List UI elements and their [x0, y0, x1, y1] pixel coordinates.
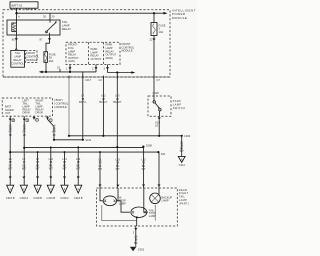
label wire L62 [99, 94, 107, 105]
label wire L7 left [79, 94, 87, 105]
svg-text:S1: S1 [57, 66, 61, 70]
wire lamp entry 4 [158, 152, 160, 188]
node park bus center tap [102, 135, 104, 137]
bulb B3 park [150, 188, 161, 204]
node v3 tap [116, 71, 118, 73]
svg-text:MODULE: MODULE [122, 49, 133, 53]
rear lamp assembly label [179, 188, 189, 206]
bulb B2 tail stop turn [117, 188, 148, 217]
wire fused output bus [39, 71, 96, 74]
wire T4 drop [50, 148, 52, 186]
wire lamp entry 1 [99, 152, 101, 188]
wire descender park feed [68, 77, 70, 136]
intelligent power module label [172, 9, 196, 20]
svg-text:WT: WT [98, 167, 102, 171]
node battery feed junction [15, 12, 17, 14]
fuse F1 [44, 52, 48, 63]
splice S1 tick [57, 66, 61, 72]
svg-text:C117: C117 [85, 78, 92, 82]
pin 85 relay coil lower [12, 35, 18, 42]
wire descender center [102, 77, 104, 136]
svg-text:C318 B: C318 B [74, 196, 83, 200]
node left tail bus start [9, 151, 11, 153]
svg-text:C7: C7 [157, 78, 161, 82]
svg-text:BK/GY: BK/GY [99, 100, 107, 104]
wire lamp ground bus [102, 205, 155, 226]
fuse F2 label [159, 24, 166, 34]
wire T3 drop [37, 152, 39, 185]
wire ground lead [133, 226, 138, 247]
wire BCM3 drop [53, 127, 55, 140]
svg-text:REAR: REAR [179, 188, 187, 192]
pin BCM 3 [46, 116, 54, 126]
label wire T1 [8, 157, 12, 171]
svg-text:BK/YL: BK/YL [79, 100, 87, 104]
svg-text:SWITCH: SWITCH [173, 106, 186, 110]
wire fuse F1 output [45, 62, 47, 72]
svg-text:C318 A: C318 A [60, 196, 69, 200]
body control module dashed box [2, 98, 52, 116]
svg-text:TAIL: TAIL [15, 51, 21, 55]
svg-text:BK: BK [134, 241, 138, 245]
svg-text:RELAY: RELAY [13, 58, 22, 62]
wire park lamp bus [69, 135, 182, 137]
wire BCM2 drop [23, 122, 25, 185]
svg-text:A: A [181, 157, 183, 161]
node T5 tap [64, 151, 66, 153]
svg-text:WT: WT [116, 167, 120, 171]
svg-text:TAIL: TAIL [179, 195, 186, 199]
wire splice link [54, 139, 83, 141]
svg-text:C316 B: C316 B [46, 196, 55, 200]
wire T5 drop [64, 152, 66, 185]
svg-text:DRVR: DRVR [23, 111, 30, 115]
node switch output junction [158, 135, 160, 137]
front control module small dashed box [25, 50, 39, 62]
svg-text:C316 B: C316 B [6, 196, 15, 200]
svg-text:S308: S308 [146, 144, 153, 148]
svg-text:BK/WT: BK/WT [113, 100, 122, 104]
node T4 tap [50, 147, 52, 149]
wire FCM pin3 run [108, 71, 136, 74]
node T3 tap [37, 151, 39, 153]
bulb B2 label [149, 208, 156, 218]
pin BCM 1 [9, 116, 15, 122]
svg-text:} CONTROL: } CONTROL [54, 102, 69, 106]
svg-text:C2: C2 [99, 78, 103, 82]
label wire BCM2 [22, 123, 26, 137]
svg-text:MODULE: MODULE [26, 58, 37, 62]
bulb B1 label [119, 196, 126, 206]
node lamp entry tap [99, 151, 101, 153]
label wire L63 [113, 94, 122, 105]
relay K1 coil [12, 20, 17, 35]
svg-text:WT: WT [76, 167, 80, 171]
svg-text:WT: WT [49, 167, 53, 171]
pin 87 relay switch lower [40, 35, 51, 42]
svg-text:(PART): (PART) [179, 201, 189, 205]
wire relay to fuse F1 [46, 42, 50, 52]
connector label C126 [153, 91, 160, 95]
node right tail bus start [23, 147, 25, 149]
relay K1 switch blade [46, 20, 57, 35]
headlamp switch contacts [153, 96, 161, 116]
svg-text:PARK: PARK [173, 99, 181, 103]
svg-text:C302: C302 [184, 134, 191, 138]
wire switch pin 30 stub [43, 13, 55, 20]
fuse F1 label [49, 53, 56, 63]
svg-text:S311: S311 [85, 138, 91, 142]
svg-text:WT: WT [8, 167, 12, 171]
node lamp feed tap [116, 146, 118, 148]
wire lamp label entry1 [98, 158, 102, 172]
relay K1 front fog lamp relay box [7, 20, 60, 35]
node left tail bus end [157, 151, 166, 156]
svg-text:LAMP: LAMP [173, 103, 182, 107]
svg-text:LAMP: LAMP [14, 55, 21, 59]
intelligent power module dashed box [3, 10, 170, 77]
splice S311 [82, 138, 92, 142]
svg-text:MODULE: MODULE [172, 16, 187, 20]
tail lamp relay control label box [11, 50, 25, 67]
label wire T6 [76, 157, 81, 171]
fuse F2 [151, 13, 157, 35]
connector arrow T1 [6, 177, 15, 200]
svg-text:WT: WT [142, 167, 146, 171]
svg-text:} MODULE: } MODULE [54, 105, 67, 109]
svg-text:} BODY: } BODY [54, 98, 63, 102]
svg-text:RELAY: RELAY [62, 27, 71, 31]
svg-text:LAMP: LAMP [162, 199, 169, 203]
wire battery to relay [17, 8, 21, 20]
connector arrow T7 [178, 156, 185, 167]
svg-text:CONTROL: CONTROL [26, 55, 39, 59]
battery feed box BATT A1 [10, 2, 38, 10]
wire Z1 ground branch [180, 136, 184, 157]
svg-text:DRVR: DRVR [36, 111, 43, 115]
svg-text:FRONT: FRONT [26, 51, 35, 55]
node park bus end [181, 134, 191, 138]
svg-text:C126: C126 [153, 91, 160, 95]
pin BCM 2 [23, 116, 29, 122]
wire B+ feed bus [17, 12, 168, 15]
front control module main label [122, 42, 135, 53]
wire descender right tail [116, 73, 118, 189]
label wire T3 [36, 157, 40, 171]
wire descender left tail [82, 72, 84, 140]
svg-text:(RHD): (RHD) [106, 56, 113, 60]
node right tail bus end [142, 144, 152, 148]
relay K1 label [62, 20, 71, 31]
pin BCM stub [33, 116, 39, 122]
pin lamp entry ticks [99, 185, 160, 186]
label wire T2 [22, 157, 26, 171]
label wire T4 [49, 157, 54, 171]
svg-text:S31: S31 [161, 152, 166, 156]
body control module label [54, 98, 69, 109]
connector arrow T5 [60, 177, 69, 200]
bulb B3 label [162, 196, 173, 203]
node fuse F2 tap [153, 12, 155, 14]
svg-text:G302: G302 [138, 248, 145, 252]
headlamp switch label [173, 99, 186, 110]
wire BCM1 drop [9, 122, 11, 185]
rear lamp assembly dashed box [97, 188, 178, 226]
label wire BCM1 [9, 123, 13, 137]
svg-text:WT: WT [36, 167, 40, 171]
front control module main dashed box [66, 42, 120, 64]
svg-text:C318 B: C318 B [33, 196, 42, 200]
svg-text:C314: C314 [179, 163, 186, 167]
wire T6 drop [77, 147, 79, 185]
label wire BCM3 [52, 123, 56, 137]
connector arrow T4 [46, 177, 55, 200]
wire right tail bus [24, 147, 143, 149]
svg-text:(LHD): (LHD) [68, 59, 75, 63]
node bulb2 ground tap [136, 216, 138, 218]
svg-text:LAMP: LAMP [179, 198, 187, 202]
wire lamp label entry3 [141, 158, 146, 172]
node park bus start [68, 135, 70, 137]
svg-text:20A: 20A [49, 59, 54, 63]
svg-text:LAMP: LAMP [119, 201, 126, 205]
wire relay control [15, 42, 17, 51]
svg-text:OUTPUT: OUTPUT [91, 57, 102, 61]
pin FCM 1 [66, 65, 71, 72]
connector arrow T3 [33, 177, 42, 200]
IPM bottom edge connector row [3, 76, 170, 82]
pin FCM 3 [104, 65, 109, 73]
svg-text:C318 A: C318 A [20, 196, 29, 200]
svg-text:RIGHT: RIGHT [179, 191, 189, 195]
pin FCM 2 [92, 65, 97, 72]
svg-text:WT: WT [22, 167, 26, 171]
label wire T5 [62, 157, 67, 171]
wire left tail bus [10, 151, 158, 153]
wire switch output [155, 116, 160, 136]
svg-text:BATT A1: BATT A1 [12, 4, 23, 8]
node FCM pin1 junction [69, 71, 71, 73]
svg-text:CONTROL: CONTROL [11, 62, 24, 66]
bulb B1 tail stop [100, 188, 118, 206]
node fuse output junction [45, 71, 47, 73]
node BCM3 corner [53, 139, 55, 141]
connector arrow T2 [20, 177, 29, 200]
svg-text:A: A [18, 15, 20, 19]
ground G302 [130, 247, 145, 252]
svg-text:WT: WT [62, 167, 66, 171]
wire fuse F2 to switch [150, 36, 156, 97]
headlamp switch dashed box [148, 96, 171, 116]
svg-text:10A: 10A [159, 30, 164, 34]
wire right bus lamp drop [143, 147, 145, 188]
wire lamp label entry2 [116, 158, 121, 172]
svg-text:WT: WT [180, 149, 184, 153]
svg-text:OUT: OUT [5, 111, 11, 115]
node T6 tap [77, 146, 79, 148]
connector arrow T6 [74, 177, 83, 200]
